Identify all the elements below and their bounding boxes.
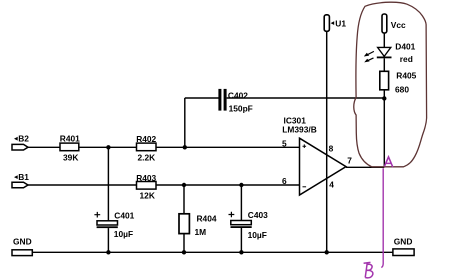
- wire R401 to R402: [79, 146, 137, 148]
- resistor R404: [179, 214, 217, 237]
- wire R405 to output corner: [383, 90, 385, 168]
- terminal +B2: [12, 133, 29, 150]
- node C403 to rail junction: [239, 250, 243, 254]
- svg-text:1M: 1M: [195, 227, 207, 237]
- node C402 branch junction: [183, 145, 187, 149]
- svg-text:U1: U1: [335, 19, 346, 29]
- svg-text:B1: B1: [18, 172, 29, 182]
- svg-text:C402: C402: [228, 91, 248, 101]
- wire B1 to R403: [28, 184, 137, 186]
- wire Vcc to D401: [383, 33, 385, 48]
- svg-text:B2: B2: [18, 133, 29, 143]
- wire op-amp output pin 7: [346, 166, 384, 168]
- wire C402 branch vertical: [184, 98, 186, 147]
- svg-text:C403: C403: [248, 210, 268, 220]
- svg-text:R402: R402: [136, 134, 156, 144]
- annotation ellipse around indicator circuit: [354, 2, 427, 167]
- node C401 to rail junction: [106, 250, 110, 254]
- resistor R403: [136, 173, 156, 201]
- wire C401 lower lead: [107, 228, 109, 252]
- node R401/R402/C401 junction: [106, 145, 110, 149]
- svg-text:6: 6: [282, 176, 287, 186]
- svg-text:R405: R405: [396, 71, 416, 81]
- wire R403 to pin 6: [156, 184, 300, 186]
- wire U1 to pin 8 through pin 4 to ground rail: [326, 31, 328, 252]
- svg-text:LM393/B: LM393/B: [282, 124, 316, 134]
- LED D401 red: [364, 41, 416, 63]
- svg-text:39K: 39K: [63, 153, 78, 163]
- svg-text:R403: R403: [136, 173, 156, 183]
- svg-text:12K: 12K: [140, 191, 155, 201]
- svg-text:R401: R401: [60, 134, 80, 144]
- capacitor C403: [229, 210, 269, 240]
- svg-text:10µF: 10µF: [248, 230, 267, 240]
- svg-text:4: 4: [329, 180, 334, 190]
- node R404 to rail junction: [182, 250, 186, 254]
- wire C402 right lead to output node: [227, 97, 385, 99]
- svg-text:GND: GND: [394, 236, 413, 246]
- svg-text:C401: C401: [114, 210, 134, 220]
- node pin 4 to rail junction: [325, 250, 329, 254]
- svg-text:2.2K: 2.2K: [138, 153, 156, 163]
- wire B2 to R401: [28, 146, 60, 148]
- svg-text:5: 5: [282, 138, 287, 148]
- wire node A to B probe line: [381, 168, 383, 267]
- ground terminal GND left: [12, 237, 32, 256]
- wire C401 upper lead: [107, 147, 109, 221]
- ground rail wire: [32, 251, 393, 253]
- wire D401 to R405: [383, 58, 385, 71]
- node R404 branch junction: [182, 183, 186, 187]
- svg-text:GND: GND: [13, 237, 32, 247]
- node C403 branch junction: [239, 183, 243, 187]
- resistor R402: [136, 134, 156, 162]
- wire C402 left lead: [185, 97, 219, 99]
- svg-text:680: 680: [395, 84, 409, 94]
- svg-text:red: red: [400, 54, 413, 64]
- wire C403 upper lead: [240, 185, 242, 221]
- wire R402 to pin 5: [156, 146, 300, 148]
- svg-text:D401: D401: [395, 41, 415, 51]
- node A marker: [384, 157, 392, 167]
- svg-text:R404: R404: [197, 214, 217, 224]
- node B marker: [364, 262, 373, 277]
- terminal Vcc: [382, 14, 406, 33]
- svg-text:150pF: 150pF: [229, 104, 253, 114]
- wire C403 lower lead: [240, 228, 242, 252]
- ground terminal GND right: [393, 236, 414, 255]
- node R405/C402/output junction: [382, 96, 386, 100]
- svg-text:10µF: 10µF: [114, 229, 133, 239]
- op-amp U301 IC301 LM393/B: [282, 116, 346, 195]
- svg-text:8: 8: [329, 143, 334, 153]
- terminal +B1: [12, 172, 29, 188]
- capacitor C401: [94, 210, 134, 239]
- resistor R405: [380, 71, 417, 95]
- wire R404 upper lead: [183, 185, 185, 214]
- svg-text:Vcc: Vcc: [391, 20, 406, 30]
- terminal U1: [324, 15, 346, 32]
- capacitor C402: [218, 89, 252, 114]
- resistor R401: [60, 134, 80, 163]
- wire R404 lower lead: [183, 234, 185, 253]
- svg-text:7: 7: [347, 155, 352, 165]
